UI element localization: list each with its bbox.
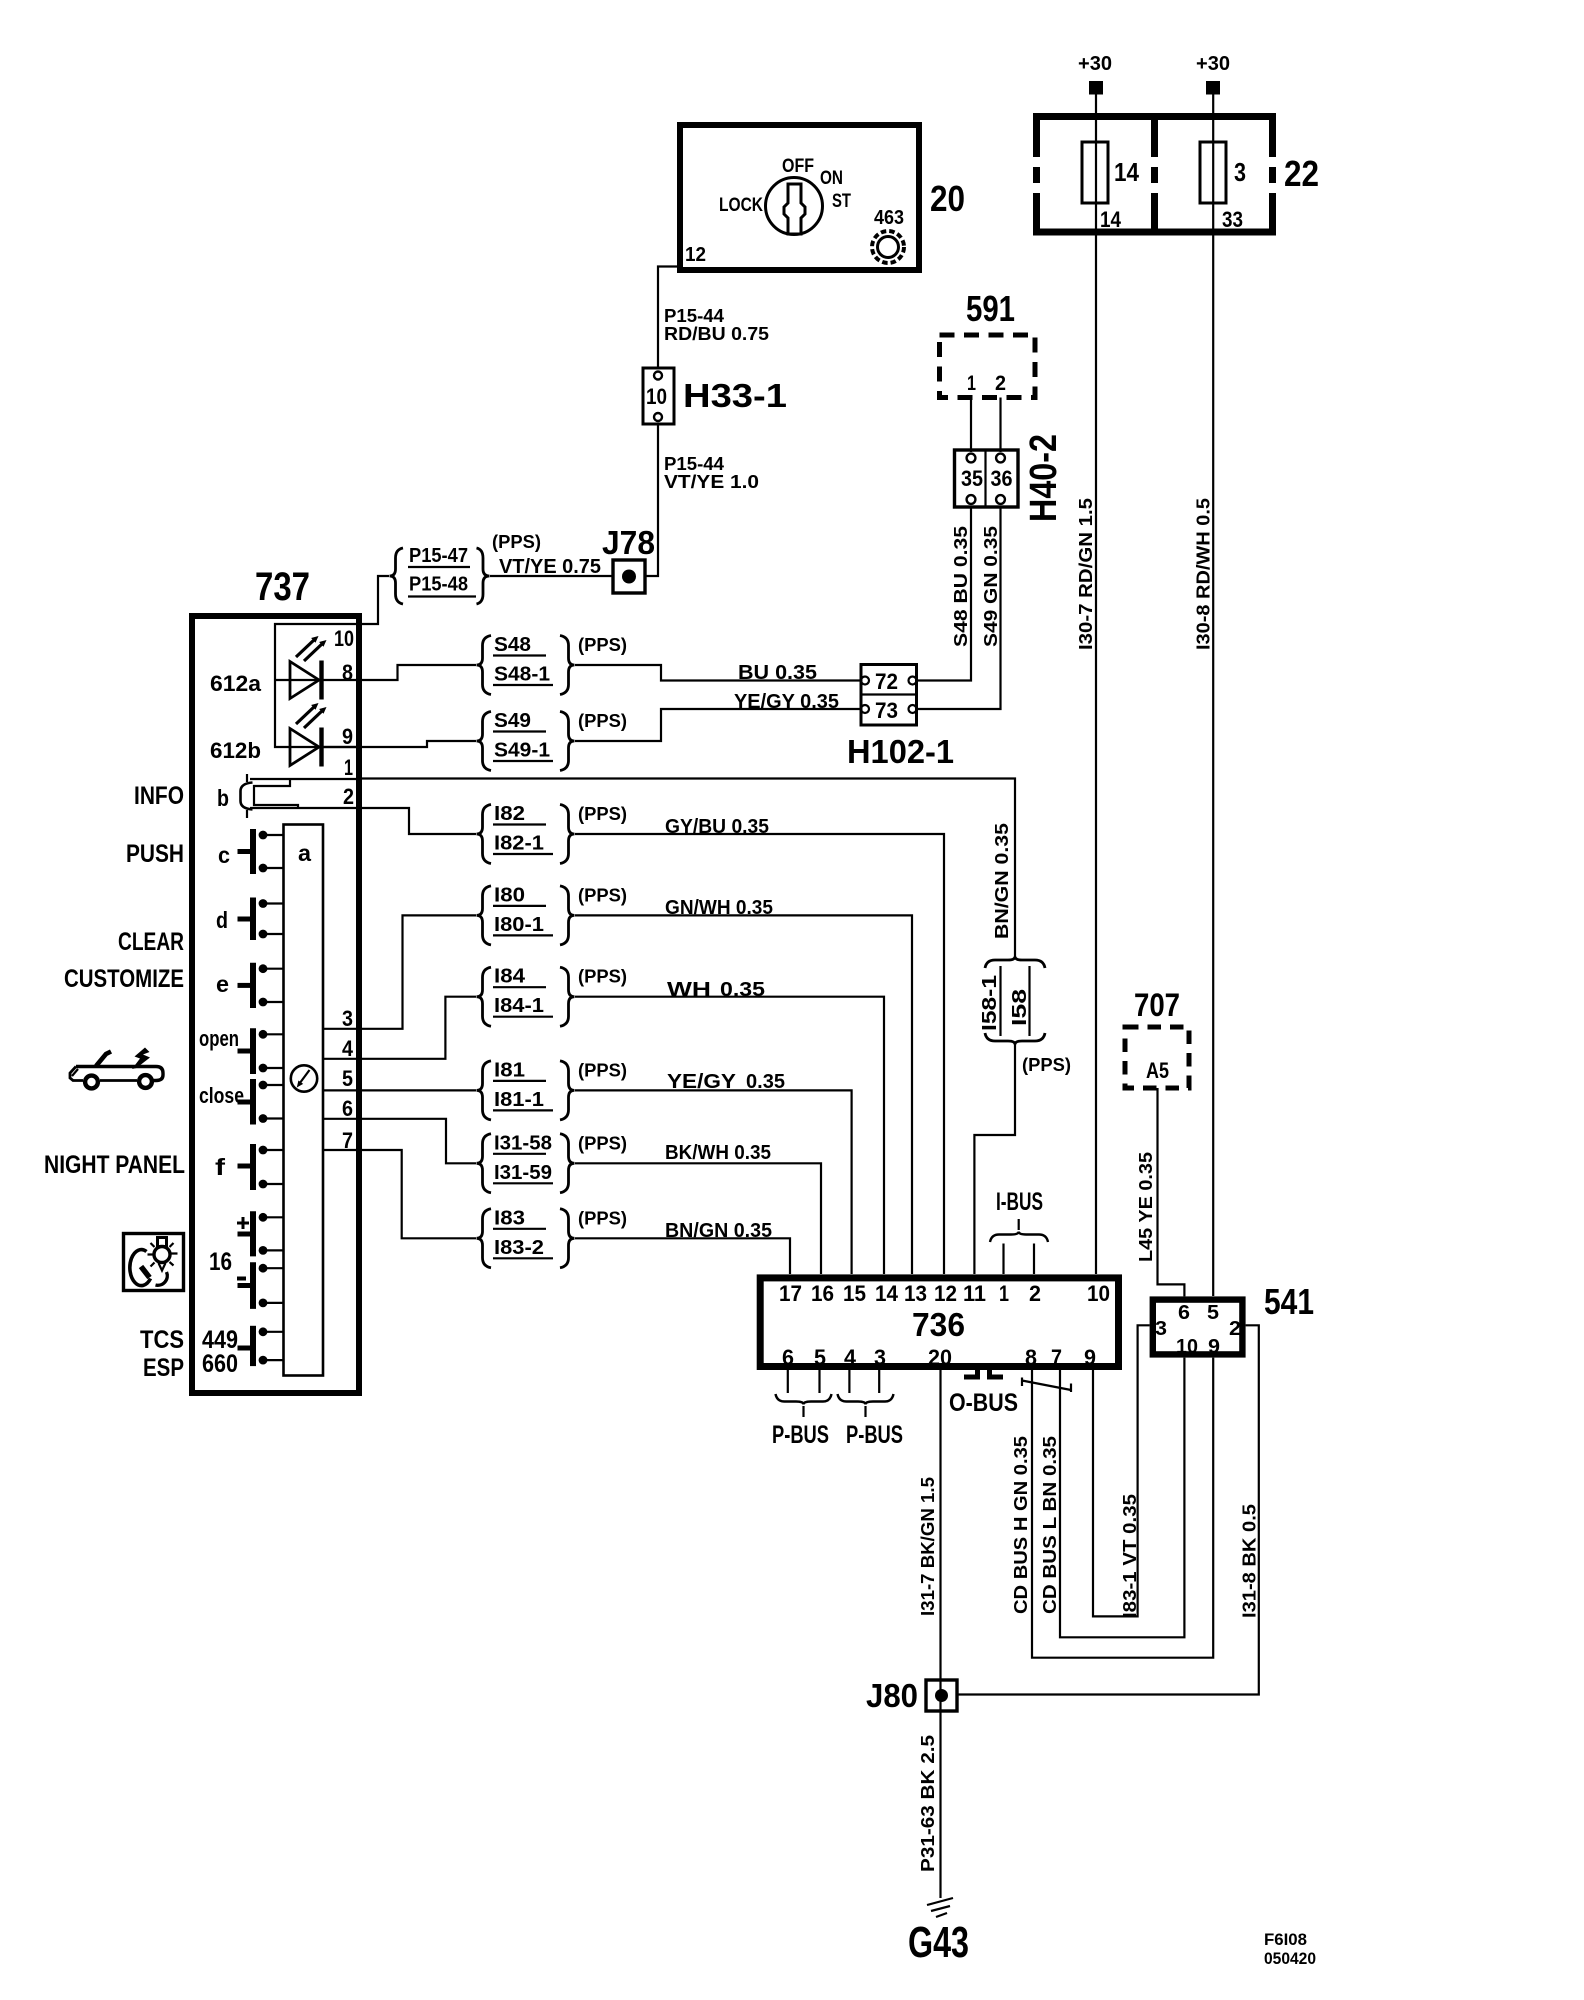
svg-text:16: 16 bbox=[811, 1281, 834, 1306]
svg-text:WH: WH bbox=[667, 979, 711, 1001]
PART1: ignition switch and fuses bbox=[602, 53, 1319, 1296]
736 bottom stub wires pins 6,5,4,3 bbox=[788, 1370, 879, 1393]
wire 737 pin7 to I83 bbox=[323, 1150, 476, 1238]
svg-text:+30: +30 bbox=[1078, 53, 1112, 75]
svg-text:I58-1: I58-1 bbox=[979, 975, 1001, 1031]
svg-text:17: 17 bbox=[779, 1281, 802, 1306]
svg-text:I81: I81 bbox=[494, 1059, 525, 1081]
wire 736 pin20 down through J80 to ground bbox=[939, 1370, 941, 1898]
svg-text:(PPS): (PPS) bbox=[578, 804, 627, 824]
I-BUS stub wires into 736 pins 1,2 bbox=[1004, 1244, 1035, 1275]
svg-text:d: d bbox=[216, 907, 228, 933]
wire pin10 737 to P15 brace bbox=[362, 576, 389, 624]
svg-text:20: 20 bbox=[930, 178, 965, 219]
svg-text:CD BUS H GN 0.35: CD BUS H GN 0.35 bbox=[1011, 1436, 1031, 1614]
wire 737 pin1 long to I58 splice bbox=[362, 779, 1015, 958]
svg-text:P-BUS: P-BUS bbox=[772, 1421, 829, 1449]
svg-text:G43: G43 bbox=[908, 1918, 969, 1967]
splice group I31-58 bbox=[477, 1134, 492, 1193]
splice group S48 bbox=[477, 636, 492, 695]
svg-text:0.35: 0.35 bbox=[746, 1071, 785, 1093]
svg-text:1: 1 bbox=[999, 1281, 1009, 1306]
svg-text:OFF: OFF bbox=[782, 156, 814, 177]
svg-text:H40-2: H40-2 bbox=[1023, 434, 1065, 522]
svg-text:INFO: INFO bbox=[134, 782, 184, 810]
svg-text:36: 36 bbox=[991, 466, 1013, 491]
svg-text:3: 3 bbox=[1155, 1317, 1167, 1340]
wire 737 pin2 to I82 bbox=[362, 808, 476, 834]
wire 737 pin5 to I81 bbox=[323, 1089, 476, 1091]
svg-text:10: 10 bbox=[646, 384, 667, 409]
wire 736 pin9 I83-1 VT to 541 pin3 bbox=[1093, 1325, 1150, 1616]
splice group I81 bbox=[477, 1061, 492, 1120]
svg-text:I31-58: I31-58 bbox=[494, 1132, 552, 1154]
key switch circle bbox=[766, 178, 823, 235]
svg-text:1: 1 bbox=[344, 755, 353, 780]
svg-text:ON: ON bbox=[820, 168, 843, 189]
junction J80 and wire to 541 pin2 bbox=[957, 1325, 1259, 1694]
splice group I84 bbox=[477, 967, 492, 1026]
svg-text:BN/GN 0.35: BN/GN 0.35 bbox=[665, 1220, 772, 1242]
wire H33-1 to J78 bbox=[645, 424, 658, 576]
svg-text:I30-8 RD/WH 0.5: I30-8 RD/WH 0.5 bbox=[1194, 498, 1214, 650]
svg-text:16: 16 bbox=[209, 1248, 232, 1276]
svg-text:J78: J78 bbox=[602, 524, 655, 561]
svg-text:I82-1: I82-1 bbox=[494, 833, 544, 855]
svg-text:I82: I82 bbox=[494, 803, 525, 825]
svg-text:F6I08: F6I08 bbox=[1264, 1930, 1307, 1949]
PART3: middle braces and wires bbox=[323, 532, 1071, 1274]
PART4: bottom connectors bbox=[760, 987, 1316, 1968]
ground symbol G43 bbox=[927, 1898, 953, 1917]
svg-text:I31-59: I31-59 bbox=[494, 1162, 552, 1184]
svg-text:I31-7 BK/GN 1.5: I31-7 BK/GN 1.5 bbox=[918, 1477, 938, 1616]
wire 736 pin8 CD BUS H to 541 pin9 bbox=[1032, 1358, 1213, 1658]
wire I82 to 736 pin12 GY/BU bbox=[575, 834, 944, 1274]
svg-text:CUSTOMIZE: CUSTOMIZE bbox=[64, 965, 184, 993]
svg-text:S48 BU 0.35: S48 BU 0.35 bbox=[951, 526, 971, 647]
svg-text:4: 4 bbox=[342, 1036, 354, 1061]
svg-text:S48: S48 bbox=[494, 634, 531, 656]
svg-text:GN/WH 0.35: GN/WH 0.35 bbox=[665, 897, 773, 919]
fuse box 22 bbox=[1033, 113, 1276, 120]
svg-text:O-BUS: O-BUS bbox=[949, 1389, 1018, 1417]
fuse 14 bbox=[1082, 142, 1108, 203]
svg-text:707: 707 bbox=[1134, 987, 1180, 1023]
svg-text:050420: 050420 bbox=[1264, 1949, 1316, 1968]
svg-text:PUSH: PUSH bbox=[126, 840, 184, 868]
svg-text:f: f bbox=[215, 1154, 225, 1180]
svg-text:72: 72 bbox=[875, 669, 898, 694]
P-BUS brace 2 bbox=[838, 1394, 894, 1405]
svg-text:2: 2 bbox=[1029, 1281, 1041, 1306]
plus sign bbox=[237, 1217, 249, 1229]
svg-text:BU 0.35: BU 0.35 bbox=[738, 662, 817, 684]
wire I31 to 736 pin16 BK/WH bbox=[575, 1163, 821, 1274]
svg-text:9: 9 bbox=[1084, 1345, 1096, 1370]
svg-text:3: 3 bbox=[1234, 157, 1246, 187]
svg-text:GY/BU 0.35: GY/BU 0.35 bbox=[665, 816, 769, 838]
svg-text:c: c bbox=[218, 842, 230, 868]
svg-text:P15-47: P15-47 bbox=[409, 545, 468, 567]
wire I83 to 736 pin17 BN/GN bbox=[575, 1238, 790, 1274]
svg-text:(PPS): (PPS) bbox=[1022, 1055, 1071, 1075]
wires 591 to H40-2 bbox=[970, 398, 972, 453]
svg-text:11: 11 bbox=[963, 1281, 986, 1306]
svg-text:I80-1: I80-1 bbox=[494, 914, 544, 936]
svg-text:7: 7 bbox=[1051, 1345, 1062, 1370]
cabrio icon bbox=[70, 1048, 163, 1089]
svg-text:I80: I80 bbox=[494, 884, 525, 906]
svg-text:+30: +30 bbox=[1196, 53, 1230, 75]
splice group I58-1/I58 rotated bbox=[985, 957, 1045, 969]
svg-text:RD/BU 0.75: RD/BU 0.75 bbox=[664, 324, 769, 344]
svg-text:5: 5 bbox=[814, 1345, 826, 1370]
svg-text:(PPS): (PPS) bbox=[578, 635, 627, 655]
box 591 dashed bbox=[940, 335, 1036, 398]
svg-text:9: 9 bbox=[342, 724, 353, 749]
svg-text:I31-8 BK 0.5: I31-8 BK 0.5 bbox=[1240, 1504, 1260, 1618]
connector H102-1 bbox=[861, 665, 917, 726]
key symbol bbox=[784, 184, 805, 234]
wire I30-8 RD/WH from +30 to 541 pin5 bbox=[1212, 94, 1214, 1296]
svg-text:15: 15 bbox=[843, 1281, 866, 1306]
wire from pin 12 bbox=[658, 267, 680, 369]
svg-text:33: 33 bbox=[1222, 207, 1243, 232]
svg-text:close: close bbox=[199, 1083, 244, 1108]
svg-text:2: 2 bbox=[343, 784, 354, 809]
svg-text:9: 9 bbox=[1208, 1335, 1220, 1358]
svg-text:(PPS): (PPS) bbox=[578, 1060, 627, 1080]
svg-text:I81-1: I81-1 bbox=[494, 1089, 544, 1111]
svg-text:10: 10 bbox=[1176, 1335, 1198, 1358]
svg-text:CD BUS L BN 0.35: CD BUS L BN 0.35 bbox=[1040, 1436, 1060, 1614]
wire I30-7 RD/GN from +30 to 736 pin10 bbox=[1095, 94, 1097, 1274]
svg-text:(PPS): (PPS) bbox=[578, 711, 627, 731]
SID unit box 737 bbox=[192, 616, 359, 1393]
svg-text:S49 GN 0.35: S49 GN 0.35 bbox=[981, 526, 1001, 647]
svg-text:(PPS): (PPS) bbox=[578, 885, 627, 905]
svg-text:8: 8 bbox=[1025, 1345, 1037, 1370]
ECU box 736 bbox=[760, 1278, 1118, 1367]
svg-text:3: 3 bbox=[874, 1345, 886, 1370]
svg-text:I-BUS: I-BUS bbox=[996, 1188, 1043, 1216]
svg-text:P-BUS: P-BUS bbox=[846, 1421, 903, 1449]
svg-text:a: a bbox=[298, 840, 311, 866]
svg-text:A5: A5 bbox=[1146, 1058, 1169, 1083]
wire 737 pin4 to I84 bbox=[323, 997, 476, 1059]
svg-text:b: b bbox=[217, 785, 229, 811]
connector H33-1 bbox=[643, 368, 674, 424]
wire I58 splice down to 736 pin11 bbox=[974, 1045, 1015, 1275]
svg-text:L45 YE 0.35: L45 YE 0.35 bbox=[1136, 1152, 1156, 1262]
svg-text:S49: S49 bbox=[494, 710, 531, 732]
svg-text:BK/WH 0.35: BK/WH 0.35 bbox=[665, 1142, 771, 1164]
svg-text:S49-1: S49-1 bbox=[494, 740, 550, 762]
svg-text:(PPS): (PPS) bbox=[578, 967, 627, 987]
svg-text:VT/YE 1.0: VT/YE 1.0 bbox=[664, 472, 759, 492]
ring 463 bbox=[872, 231, 904, 263]
connector H40-2 bbox=[955, 450, 1019, 507]
svg-text:P15-44: P15-44 bbox=[664, 306, 724, 326]
splice group P15-47/P15-48 bbox=[390, 548, 404, 604]
svg-text:6: 6 bbox=[782, 1345, 794, 1370]
wire S49 to H102-1 pin73 bbox=[575, 709, 861, 741]
svg-text:736: 736 bbox=[912, 1306, 965, 1343]
motor circle bbox=[291, 1065, 317, 1091]
connector 541 bbox=[1153, 1300, 1243, 1355]
splice group S49 bbox=[477, 712, 492, 771]
minus sign bbox=[237, 1277, 246, 1281]
svg-text:3: 3 bbox=[342, 1006, 353, 1031]
svg-text:H33-1: H33-1 bbox=[683, 377, 787, 414]
wire I81 to 736 pin15 YE/GY bbox=[575, 1090, 852, 1274]
svg-text:12: 12 bbox=[685, 244, 706, 266]
svg-text:TCS: TCS bbox=[140, 1326, 184, 1354]
P-BUS brace 1 bbox=[776, 1394, 832, 1405]
svg-text:612b: 612b bbox=[210, 738, 261, 763]
svg-text:14: 14 bbox=[1100, 207, 1122, 232]
button block a bbox=[284, 825, 324, 1376]
wire A5 down to 541 pin6 bbox=[1158, 1088, 1185, 1296]
svg-text:J80: J80 bbox=[866, 1677, 918, 1714]
svg-text:YE/GY: YE/GY bbox=[667, 1071, 737, 1093]
svg-text:12: 12 bbox=[934, 1281, 957, 1306]
splice group I82 bbox=[477, 805, 492, 864]
svg-text:BN/GN 0.35: BN/GN 0.35 bbox=[992, 823, 1012, 939]
svg-text:5: 5 bbox=[1207, 1301, 1219, 1324]
svg-text:P31-63 BK 2.5: P31-63 BK 2.5 bbox=[918, 1735, 938, 1872]
junction J78 bbox=[613, 560, 645, 593]
svg-text:13: 13 bbox=[904, 1281, 927, 1306]
svg-text:2: 2 bbox=[995, 372, 1006, 395]
svg-text:VT/YE 0.75: VT/YE 0.75 bbox=[499, 556, 601, 578]
wire 737 pin9 to S49 bbox=[362, 741, 476, 747]
svg-text:I83: I83 bbox=[494, 1207, 525, 1229]
svg-text:(PPS): (PPS) bbox=[578, 1208, 627, 1228]
wires H40-2 down to H102-1 bbox=[917, 507, 971, 681]
svg-text:5: 5 bbox=[342, 1066, 353, 1091]
svg-text:NIGHT PANEL: NIGHT PANEL bbox=[44, 1151, 185, 1179]
svg-text:22: 22 bbox=[1284, 153, 1319, 194]
svg-text:10: 10 bbox=[1087, 1281, 1110, 1306]
splice group I83 bbox=[477, 1209, 492, 1268]
svg-text:I84-1: I84-1 bbox=[494, 995, 544, 1017]
svg-text:6: 6 bbox=[1178, 1301, 1190, 1324]
svg-text:ESP: ESP bbox=[143, 1354, 184, 1382]
svg-text:1: 1 bbox=[967, 372, 976, 395]
svg-text:591: 591 bbox=[966, 288, 1015, 329]
svg-text:2: 2 bbox=[1229, 1317, 1241, 1340]
svg-text:(PPS): (PPS) bbox=[578, 1133, 627, 1153]
wire 737 pin3 to I80 bbox=[323, 915, 476, 1028]
svg-text:CLEAR: CLEAR bbox=[118, 928, 184, 956]
svg-text:14: 14 bbox=[1114, 157, 1139, 187]
svg-text:I83-2: I83-2 bbox=[494, 1237, 544, 1259]
svg-text:0.35: 0.35 bbox=[720, 979, 765, 1001]
svg-text:YE/GY 0.35: YE/GY 0.35 bbox=[734, 691, 839, 713]
wire I84 to 736 pin14 WH bbox=[575, 997, 884, 1274]
svg-text:73: 73 bbox=[875, 698, 898, 723]
wire 737 pin6 to I31-58 bbox=[323, 1119, 476, 1164]
svg-text:H102-1: H102-1 bbox=[847, 733, 954, 770]
svg-text:ST: ST bbox=[832, 191, 851, 212]
svg-text:14: 14 bbox=[875, 1281, 899, 1306]
svg-text:612a: 612a bbox=[210, 671, 262, 696]
svg-text:P15-44: P15-44 bbox=[664, 454, 724, 474]
svg-text:6: 6 bbox=[342, 1096, 353, 1121]
svg-text:35: 35 bbox=[961, 466, 983, 491]
svg-text:open: open bbox=[199, 1026, 239, 1051]
svg-text:8: 8 bbox=[342, 660, 353, 685]
svg-text:I30-7 RD/GN 1.5: I30-7 RD/GN 1.5 bbox=[1076, 498, 1096, 650]
svg-text:S48-1: S48-1 bbox=[494, 664, 550, 686]
svg-text:I84: I84 bbox=[494, 966, 526, 988]
LED sub-box bbox=[275, 624, 357, 747]
box 707 dashed bbox=[1125, 1027, 1189, 1088]
svg-text:e: e bbox=[216, 971, 229, 997]
svg-text:I83-1 VT 0.35: I83-1 VT 0.35 bbox=[1120, 1494, 1140, 1618]
ignition switch box 20 bbox=[680, 125, 919, 270]
wire 737 pin8 to S48 bbox=[362, 665, 476, 680]
fuse 3 bbox=[1200, 142, 1226, 203]
O-BUS symbol feet bbox=[964, 1370, 978, 1377]
svg-text:P15-48: P15-48 bbox=[409, 574, 468, 596]
svg-text:660: 660 bbox=[202, 1350, 238, 1378]
twisted pair slash bbox=[1022, 1378, 1071, 1393]
PART2: left box 737 bbox=[44, 565, 362, 1393]
svg-text:541: 541 bbox=[1264, 1281, 1314, 1322]
svg-text:10: 10 bbox=[334, 626, 354, 651]
svg-text:737: 737 bbox=[255, 565, 310, 609]
dimmer icon box bbox=[124, 1234, 184, 1291]
svg-text:LOCK: LOCK bbox=[719, 195, 763, 216]
svg-text:(PPS): (PPS) bbox=[492, 532, 541, 552]
svg-text:4: 4 bbox=[844, 1345, 857, 1370]
splice group I80 bbox=[477, 886, 492, 945]
svg-text:463: 463 bbox=[874, 207, 904, 229]
svg-text:I58: I58 bbox=[1009, 989, 1031, 1026]
wire 736 pin7 CD BUS L to 541 pin10 bbox=[1060, 1358, 1184, 1638]
wire S48 to H102-1 pin72 bbox=[575, 665, 861, 681]
svg-text:20: 20 bbox=[928, 1345, 952, 1370]
wire P15 brace to J78 bbox=[490, 575, 613, 577]
wire I80 to 736 pin13 GN/WH bbox=[575, 915, 912, 1274]
